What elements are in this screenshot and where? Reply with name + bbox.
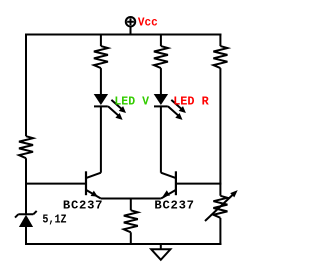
ground symbol — [151, 244, 170, 260]
svg-text:BC237: BC237 — [63, 199, 103, 213]
resistor R1 left — [19, 136, 33, 158]
wire branch2 upper — [160, 34, 162, 47]
wire base left — [25, 183, 86, 185]
supply symbol Vcc — [126, 17, 135, 35]
resistor R3 — [154, 46, 168, 68]
resistor R6 tail — [124, 210, 138, 232]
zener diode D1 5,1Z — [15, 211, 37, 227]
LED V light arrows — [108, 100, 126, 120]
LED R diode — [154, 94, 168, 106]
transistor Q2 BC237 — [161, 171, 176, 198]
resistor R4 — [213, 46, 227, 68]
LED V diode — [94, 94, 108, 106]
wire right rail upper — [219, 34, 221, 47]
transistor Q1 BC237 — [86, 171, 101, 198]
wire branch2 to LED — [160, 68, 162, 94]
variable resistor R5 trimmer — [205, 190, 238, 221]
svg-text:Vcc: Vcc — [138, 16, 158, 30]
wire emitter rail — [101, 198, 161, 200]
resistor R2 — [94, 46, 108, 68]
wire tail resistor lower — [130, 232, 132, 244]
svg-text:BC237: BC237 — [154, 199, 194, 213]
wire left rail lower — [25, 227, 27, 245]
wire branch1 upper — [100, 34, 102, 47]
wire base right — [176, 183, 222, 185]
LED R light arrows — [168, 100, 186, 120]
wire top rail — [25, 34, 221, 36]
wire branch1 lower — [100, 106, 102, 172]
wire branch2 lower — [160, 106, 162, 172]
wire right rail middle — [219, 68, 221, 196]
wire branch1 to LED — [100, 68, 102, 94]
svg-text:LED V: LED V — [114, 95, 149, 109]
wire right rail lower — [219, 218, 221, 245]
svg-text:LED R: LED R — [173, 95, 209, 109]
wire bottom rail — [25, 243, 221, 245]
wire left rail middle — [25, 158, 27, 214]
wire tail resistor upper — [130, 199, 132, 211]
wire left rail upper — [25, 34, 27, 137]
svg-text:5,1Z: 5,1Z — [42, 213, 66, 227]
